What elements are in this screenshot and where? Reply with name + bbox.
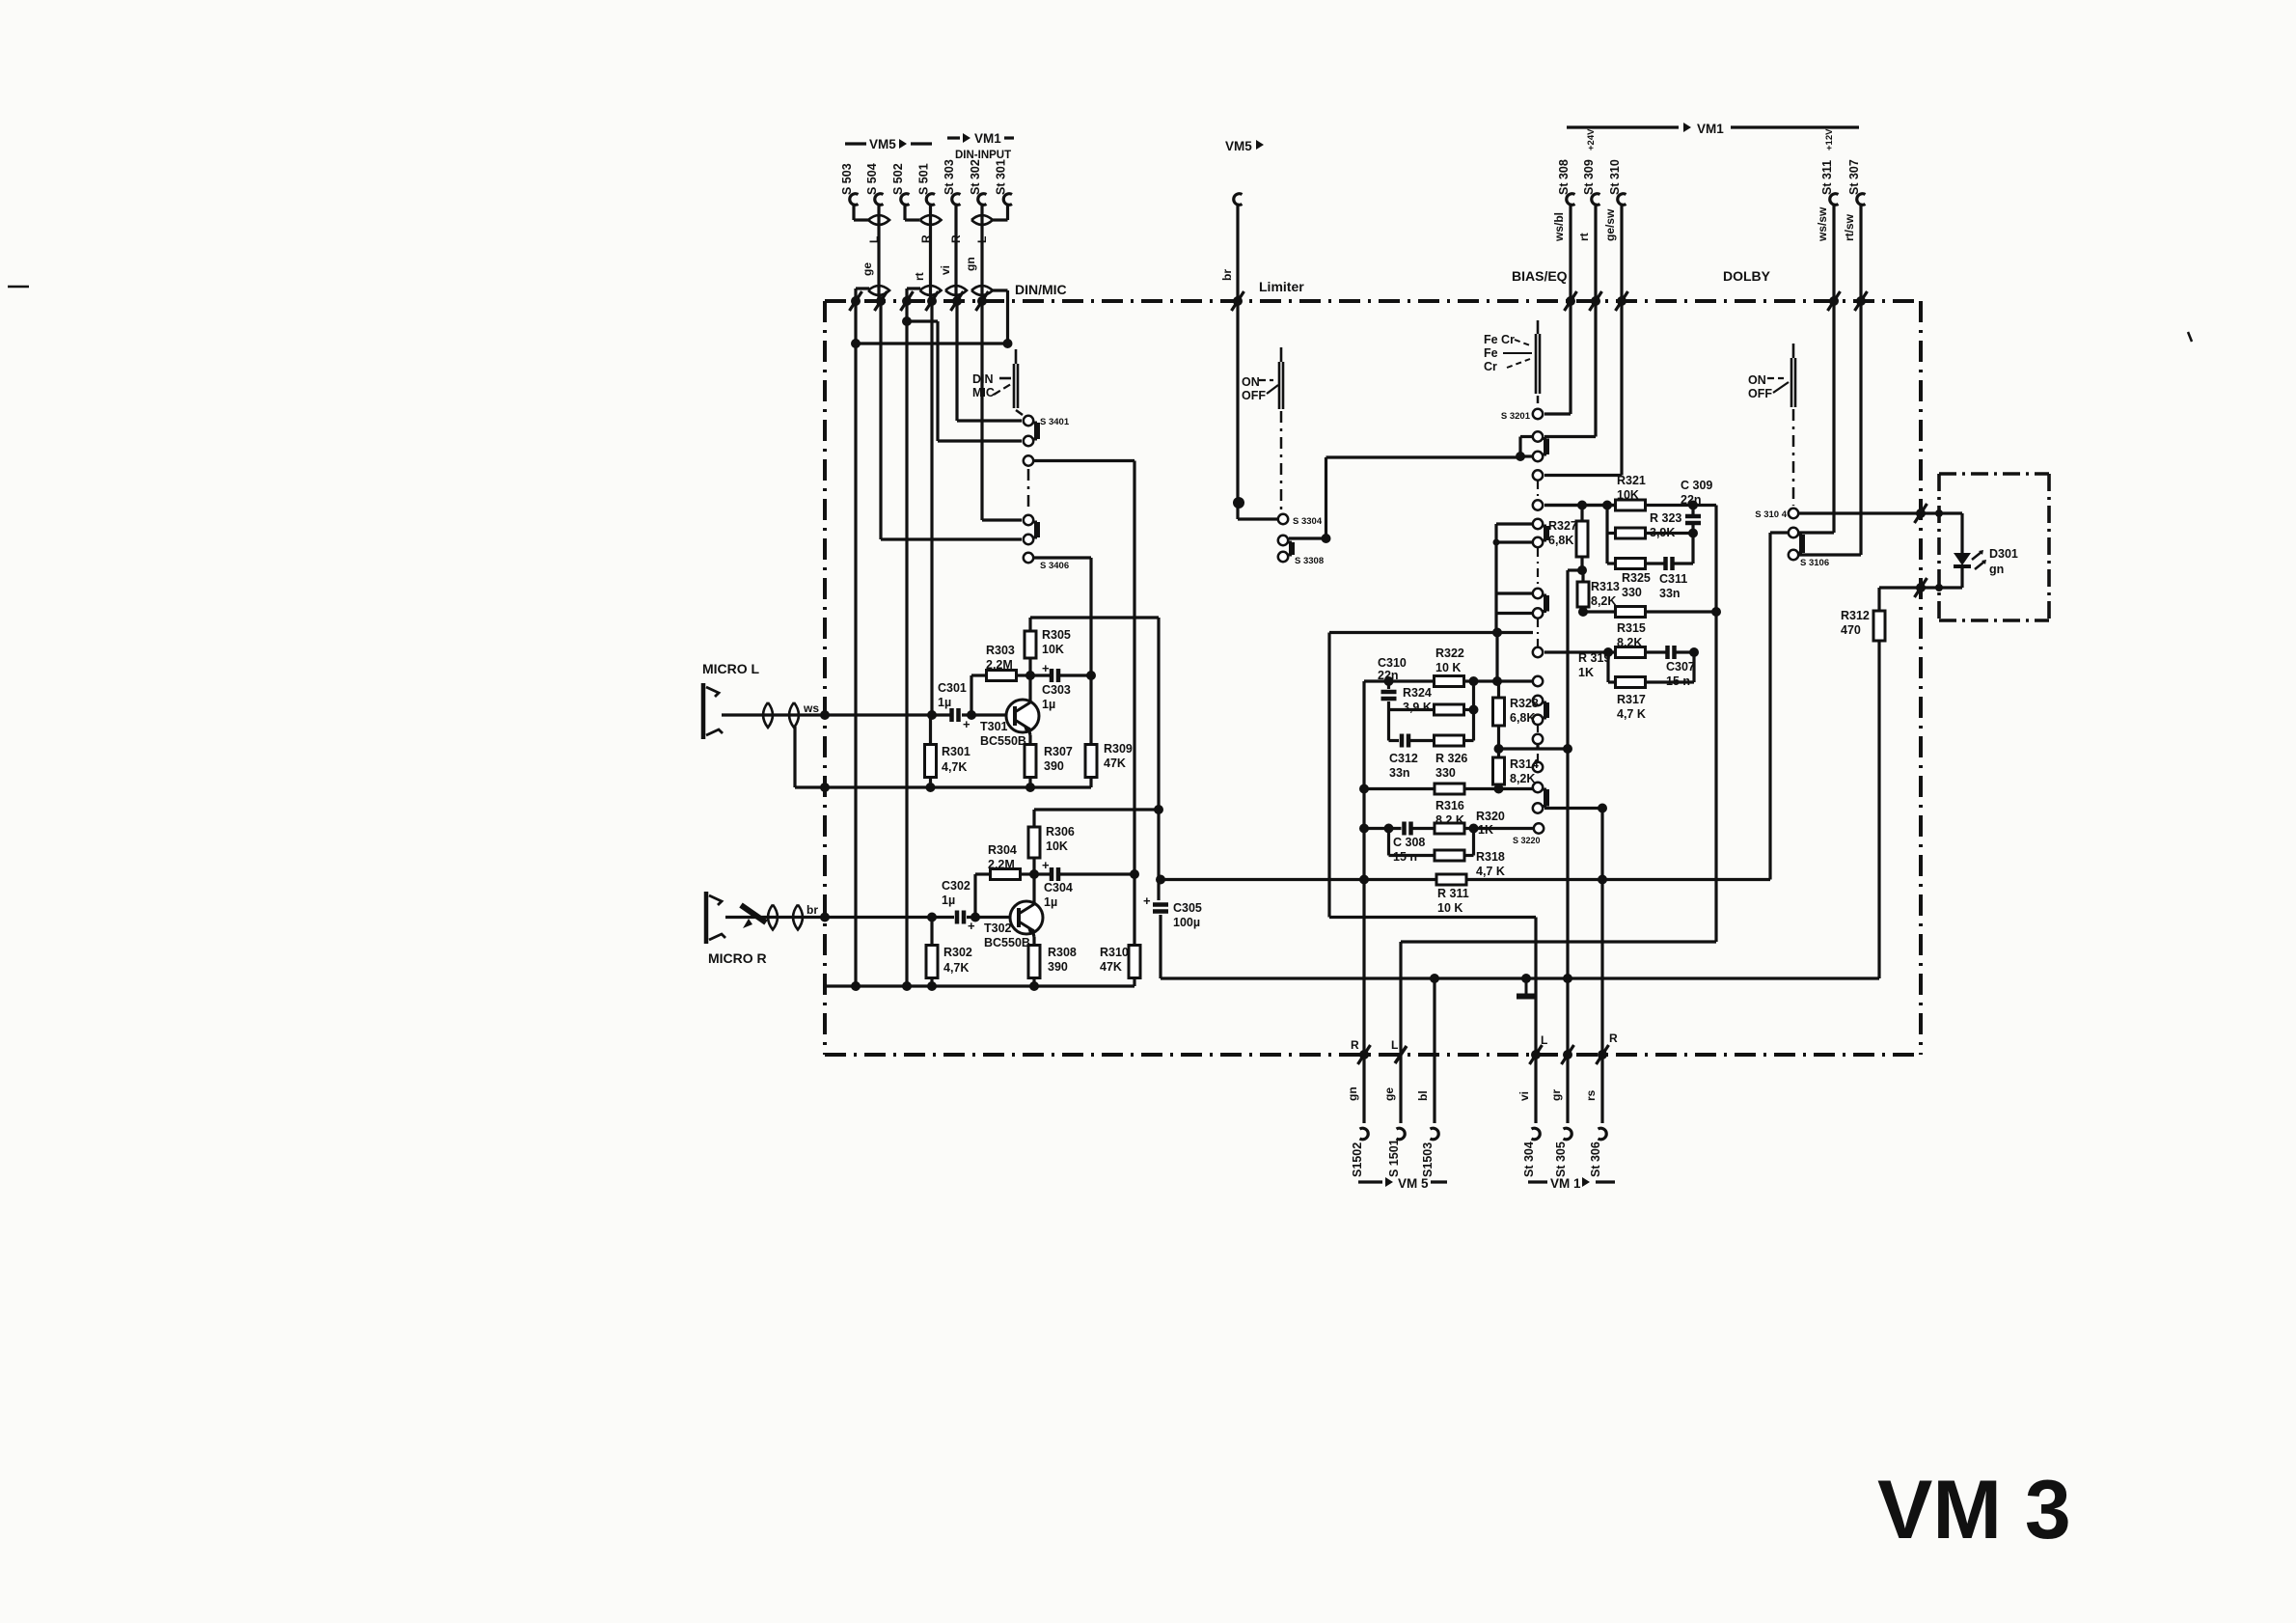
wire R309 bottom to rail [1089,778,1092,788]
node S502 label [891,163,905,195]
svg-text:rs: rs [1584,1089,1598,1101]
node S3220 label [1513,836,1541,845]
connector St302 hook [978,194,987,206]
wire R318 right [1465,829,1474,856]
switch contact bottom bus x=1592 [1530,1045,1543,1064]
node wire color vi [939,265,952,275]
wire T302 collector [1032,874,1035,904]
svg-text:+: + [1143,894,1151,908]
svg-text:ON: ON [1242,375,1260,389]
node C301 label [938,681,967,709]
cable symbol on vi wire [945,286,967,295]
resistor R307 [1025,745,1036,778]
node junction feed R328 row [1563,744,1572,754]
svg-text:330: 330 [1435,766,1456,780]
node DIN/MIC section label [1015,282,1067,297]
node R317 label [1617,693,1646,721]
switch contact on bus at x=940 [901,291,914,311]
wire R327 top [1580,506,1583,522]
cable pair symbol R (S502/S501) [920,215,942,225]
svg-text:C 309: C 309 [1681,479,1712,492]
svg-text:S 3401: S 3401 [1040,417,1070,427]
wire R312 to LED row [1879,586,1962,589]
svg-text:MICRO L: MICRO L [702,661,760,676]
connector St304 hook [1532,1128,1541,1140]
transistor T301 [1006,700,1039,732]
wire S501 line down to C301 node [930,301,933,715]
svg-text:R328: R328 [1510,697,1539,710]
node St308 label [1557,159,1571,195]
cable symbol on mic R wire 2 [793,905,803,930]
node junction R311 R-out [1359,875,1369,885]
cable symbol on rt wire [920,286,942,295]
switch contact on bus at x=992 [951,291,964,311]
wire T302 emitter to R308 [1032,929,1034,946]
node S503 label [840,163,854,195]
node S1503 label [1421,1142,1435,1177]
node C302 label [942,879,970,907]
wire limiter riser to +24V row [1326,457,1521,538]
switch contact St310 row [1533,470,1543,480]
node R301 label [942,745,970,774]
svg-text:T301: T301 [980,720,1008,733]
resistor R310 [1129,946,1140,978]
node junction R314 R316 [1494,784,1504,794]
wire supply feed down [1157,618,1160,900]
node R318 label [1476,850,1505,878]
node C309 label [1681,479,1712,507]
node wire color rt [913,272,926,281]
wire R EQ top row [1329,631,1533,634]
svg-text:L: L [867,236,881,243]
svg-text:S 3201: S 3201 [1501,411,1531,422]
node S1501 label [1387,1139,1401,1177]
node R312 label [1841,609,1870,637]
wire R305 top to supply rail [1028,618,1031,631]
wire C304 right to R out node [1058,872,1134,875]
wire MICRO L to C301 [722,713,951,716]
node junction collector node R [1029,869,1039,879]
svg-text:C303: C303 [1042,683,1071,697]
svg-text:22n: 22n [1681,493,1702,507]
connector St308 hook [1567,194,1575,206]
node R323 label [1650,511,1681,539]
svg-text:R321: R321 [1617,474,1646,487]
wire R325 to C311 [1646,562,1666,564]
svg-text:ON: ON [1748,373,1766,387]
node R313 label [1591,580,1620,608]
switch L link bar [1544,595,1549,612]
wire R318 branch [1389,829,1435,856]
svg-text:St 301: St 301 [995,159,1008,195]
svg-text:390: 390 [1048,960,1068,974]
svg-text:MIC: MIC [972,386,995,399]
resistor R319 [1616,647,1646,658]
wire EQ L top row [1544,504,1616,507]
svg-text:R308: R308 [1048,946,1077,959]
node wire color rs [1584,1089,1598,1101]
switch contact R319 row [1533,647,1543,657]
wire LED cathode [1960,567,1963,588]
svg-text:C304: C304 [1044,881,1073,894]
node junction R304 feedback [970,913,980,922]
svg-text:R 323: R 323 [1650,511,1681,525]
node ws wire color [803,701,819,715]
node junction rail R301 [926,783,936,792]
node wire color bl [1416,1090,1430,1101]
node VM1 header top-left [947,131,1014,146]
resistor R312 [1873,611,1885,641]
svg-text:St 305: St 305 [1554,1142,1568,1177]
wire R325 left [1607,562,1616,564]
svg-text:10K: 10K [1042,643,1064,656]
wire LED anode [1960,513,1963,553]
node junction rail bl line [1430,974,1439,983]
node C307 label [1666,660,1695,688]
svg-text:S 503: S 503 [840,163,854,195]
wire R supply rail [1034,808,1159,811]
node MICRO R label [708,950,767,966]
node St310 label [1608,159,1622,195]
resistor R311 [1436,874,1466,885]
node junction limiter riser [1322,534,1331,543]
svg-text:rt: rt [1577,233,1591,241]
svg-text:St 311: St 311 [1820,160,1834,195]
wire switch axis Limiter [1280,411,1283,512]
wire R304 right [1021,872,1035,875]
switch contact EQ L top row [1533,500,1543,509]
node junction R311 St306 [1598,875,1607,885]
wire St303 stem [954,205,957,301]
wire switch axis seg1 [1537,481,1539,500]
svg-text:rt/sw: rt/sw [1843,213,1856,241]
node DIN MIC switch labels [972,372,1011,399]
connector S1503 hook [1431,1128,1439,1140]
svg-text:OFF: OFF [1748,387,1772,400]
wire St301 stem [993,205,1008,220]
wire R308 bottom to rail [1032,978,1035,987]
svg-text:C307: C307 [1666,660,1695,674]
wire St306 vertical [1600,809,1603,1056]
connector S504 hook [875,194,884,206]
svg-text:gn: gn [964,257,977,271]
svg-text:VM 1: VM 1 [1550,1176,1581,1191]
node VM5 header top middle [1225,139,1264,153]
node L label under pair 1 [867,236,881,243]
node junction at (940,333) [902,316,912,326]
svg-text:ws/bl: ws/bl [1552,212,1566,242]
node junction rail St305 [1563,974,1572,983]
connector St311 hook [1830,194,1839,206]
svg-text:R325: R325 [1622,571,1651,585]
node C311 label [1659,572,1687,600]
wire St303 line down to S3401 [957,301,1022,421]
node St306 label [1589,1142,1602,1177]
switch S3106 contact upper [1789,528,1798,537]
svg-text:8,2K: 8,2K [1591,594,1616,608]
wire R303 left [971,674,987,676]
node junction D301 box left bottom [1935,584,1943,591]
wire R315 right [1646,610,1717,613]
svg-text:1K: 1K [1578,666,1594,679]
wire St305 stem [1566,1055,1569,1123]
svg-text:R324: R324 [1403,686,1432,700]
node St309 label [1582,159,1596,195]
cable symbol on gn wire [971,286,993,295]
svg-text:S 502: S 502 [891,163,905,195]
wire switch axis seg5 [1537,754,1539,762]
wire C308 row [1364,827,1402,830]
node junction R328 R314 [1494,744,1504,754]
svg-text:100µ: 100µ [1173,916,1200,929]
svg-text:22n: 22n [1378,669,1399,682]
connector br stem hook [1234,194,1243,206]
node R325 label [1622,571,1651,599]
node +12V label [1824,128,1835,151]
node junction R output node [1130,869,1139,879]
svg-text:VM5: VM5 [1225,139,1252,153]
svg-text:ws: ws [803,701,819,715]
switch S3401 link bar [1034,423,1040,439]
node C304 label [1044,881,1073,909]
node R315 label [1617,621,1646,649]
wire S1503 stem [1433,1055,1435,1123]
wire long +feed vertical [1566,570,1569,1055]
cable symbol on mic R wire 1 [768,905,778,930]
transistor T302 [1010,901,1043,934]
svg-text:R327: R327 [1548,519,1577,533]
wire stub L lower pair [1496,612,1532,615]
connector St309 hook [1592,194,1600,206]
svg-text:R: R [949,234,963,243]
node VM5 header bottom [1358,1176,1447,1191]
node br stem label [1220,269,1234,281]
node junction R319 left [1603,647,1613,657]
wire St304 stem [1534,1055,1537,1123]
node junction mic L at border [820,710,830,720]
svg-text:S 501: S 501 [917,163,931,195]
wire S3308 riser wire [1289,536,1326,539]
wire R304 left [975,872,991,875]
switch contact bus St310 [1616,291,1628,311]
resistor R308 [1028,946,1040,978]
node wire color rt/sw [1843,213,1856,241]
wire DIN/MIC box bottom [856,342,1008,344]
wire R313 bottom [1581,607,1584,612]
svg-text:R312: R312 [1841,609,1870,622]
wire R301 top [929,715,932,745]
switch contact bus St311 [1828,291,1841,311]
switch contact pair EQ2 lower [1533,715,1543,725]
svg-text:S 3220: S 3220 [1513,836,1541,845]
node St302 label [969,159,982,195]
resistor R328 [1493,698,1505,726]
node FeCr labels [1484,333,1515,373]
resistor R317 [1616,677,1646,688]
switch contact pair mid upper [1533,519,1543,529]
wire St308 stem [1544,205,1571,414]
cable pair symbol L (S503/S504) [868,215,889,225]
resistor R305 [1025,631,1036,658]
wire R315 left [1583,610,1616,613]
cable symbol on mic L wire 1 [763,702,773,728]
node junction R317 right [1689,647,1699,657]
node junction box bottom left [851,339,861,348]
cable pair symbol L (St302/St301) [971,215,993,225]
svg-text:1µ: 1µ [1044,895,1057,909]
svg-text:L: L [975,236,989,243]
svg-text:Fe Cr: Fe Cr [1484,333,1515,346]
wire switch axis seg2 [1537,548,1539,589]
node junction supply-R rail [1154,805,1163,814]
wire St307 stem [1859,205,1862,555]
svg-text:L: L [1541,1033,1547,1047]
switch contact bottom bus x=1661 [1597,1045,1609,1064]
svg-text:R 319: R 319 [1578,651,1610,665]
node R306 label [1046,825,1075,853]
svg-text:VM 5: VM 5 [1398,1176,1429,1191]
wire L EQ top row [1544,504,1616,507]
connector St310 hook [1618,194,1626,206]
connector MICRO R jack [706,892,725,944]
node D301 label [1989,547,2018,576]
wire S503 line down to ground rail [854,301,857,986]
wire S504 line down to S3405 [881,301,1022,539]
svg-text:330: 330 [1622,586,1642,599]
switch S3106 contact lower [1789,550,1798,560]
wire stub bus to ge pair [856,289,869,301]
resistor R301 [925,745,937,778]
wire R327 bottom [1580,557,1583,570]
switch S3201 contact [1533,409,1543,419]
resistor R314 [1493,757,1505,784]
svg-text:470: 470 [1841,623,1861,637]
node junction R324 right [1469,705,1479,715]
wire R323 left [1607,506,1616,564]
svg-text:St 309: St 309 [1582,159,1596,195]
svg-text:R306: R306 [1046,825,1075,839]
switch wiper contact (DIN/MIC L) [1024,455,1033,465]
svg-text:BIAS/EQ: BIAS/EQ [1512,268,1568,284]
svg-text:ge: ge [1382,1087,1396,1101]
switch contact idle row [1533,762,1543,772]
svg-text:ge/sw: ge/sw [1603,208,1617,241]
svg-text:R313: R313 [1591,580,1620,593]
svg-text:VM5: VM5 [869,137,896,151]
node St311 label [1820,160,1834,195]
svg-text:St 310: St 310 [1608,159,1622,195]
capacitor C309 symbol bars [1685,516,1701,523]
resistor R318 [1435,850,1464,861]
resistor R325 [1616,559,1646,569]
svg-text:St 306: St 306 [1589,1142,1602,1177]
svg-text:BC550B: BC550B [984,936,1030,949]
switch contact on bus at x=1018 [976,291,989,311]
switch contact bus St309 [1590,291,1602,311]
resistor R313 [1577,582,1589,607]
svg-text:R302: R302 [943,946,972,959]
capacitor C305 symbol [1143,894,1168,912]
node S3401 label [1040,417,1070,427]
wire D301 enclosure box left [1937,474,1941,620]
node junction D301 box left top [1935,509,1943,517]
svg-text:S 504: S 504 [865,163,879,195]
capacitor C303 symbol [1042,661,1058,682]
node junction rail S503 line [851,981,861,991]
node junction St306 corner [1598,804,1607,813]
wire R317 right [1646,652,1695,682]
switch contact dolby line right border [1915,504,1927,523]
switch contact bottom bus x=1625 [1562,1045,1574,1064]
svg-text:C311: C311 [1659,572,1687,586]
svg-text:Limiter: Limiter [1259,279,1304,294]
node R328 label [1510,697,1539,725]
wire C305 bottom to right ground rail [1161,915,1879,978]
svg-text:+: + [1042,661,1050,675]
node St307 label [1847,159,1861,195]
node VM3 title [1877,1464,2071,1556]
wire R324 right [1464,708,1474,711]
wire R306 bottom [1032,858,1035,874]
svg-text:R309: R309 [1104,742,1133,756]
wire R301 bottom to rail [929,778,932,788]
connector S1502 hook [1360,1128,1369,1140]
svg-text:S 3304: S 3304 [1293,516,1323,527]
wire R326 right [1464,739,1474,742]
svg-text:VM1: VM1 [1697,122,1724,136]
wire switch axis seg4 [1537,725,1539,735]
node R327 label [1548,519,1577,547]
wire R ladder left column [1327,633,1330,918]
node junction C310 top [1384,676,1394,686]
connector S1501 hook [1397,1128,1406,1140]
node junction base node R301 [927,710,937,720]
wire R314 stubs [1497,749,1500,789]
wire R323 right [1646,532,1694,535]
svg-text:8,2K: 8,2K [1510,772,1535,785]
node junction mid pair lower [1493,539,1500,546]
node S3304 label [1293,516,1323,527]
node junction mic R at border [820,913,830,922]
svg-text:R317: R317 [1617,693,1646,706]
wire R328 node row [1499,747,1569,750]
svg-text:bl: bl [1416,1090,1430,1101]
wire node to long vertical [1568,568,1582,571]
node wire color gn [1346,1087,1359,1101]
wire C303 right [1058,674,1091,676]
switch contact pair L lower [1533,608,1543,618]
svg-text:1µ: 1µ [942,894,955,907]
switch contact bottom bus x=1414 [1358,1045,1371,1064]
wire R307 bottom to rail [1028,778,1031,788]
node S1502 label [1351,1142,1364,1177]
svg-text:MICRO R: MICRO R [708,950,767,966]
svg-text:R318: R318 [1476,850,1505,864]
connector St307 hook [1857,194,1866,206]
node C303 label [1042,683,1071,711]
wire MICRO R to C302 [725,916,954,919]
node R308 label [1048,946,1077,974]
wire R312 top [1877,588,1880,611]
svg-text:33n: 33n [1659,587,1681,600]
svg-text:R315: R315 [1617,621,1646,635]
node S3406 label [1040,561,1069,571]
svg-text:6,8K: 6,8K [1548,534,1573,547]
switch S3405 contact lower [1024,535,1033,544]
resistor R322 [1435,676,1464,687]
wire switch axis DOLBY [1792,409,1795,506]
node R314 label [1510,757,1539,785]
